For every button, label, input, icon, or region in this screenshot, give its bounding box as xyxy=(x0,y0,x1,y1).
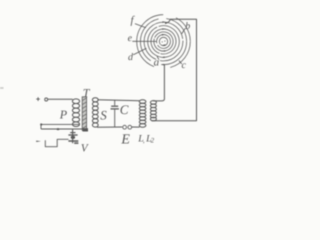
svg-text:C: C xyxy=(120,102,129,117)
svg-text:a: a xyxy=(154,57,160,69)
svg-text:2: 2 xyxy=(151,136,155,144)
svg-text:e: e xyxy=(128,33,133,44)
svg-text:,: , xyxy=(143,136,145,144)
svg-text:S: S xyxy=(100,107,107,122)
svg-text:b: b xyxy=(185,21,190,32)
svg-text:E: E xyxy=(120,132,130,147)
svg-text:c: c xyxy=(182,60,187,71)
svg-text:P: P xyxy=(59,107,68,121)
